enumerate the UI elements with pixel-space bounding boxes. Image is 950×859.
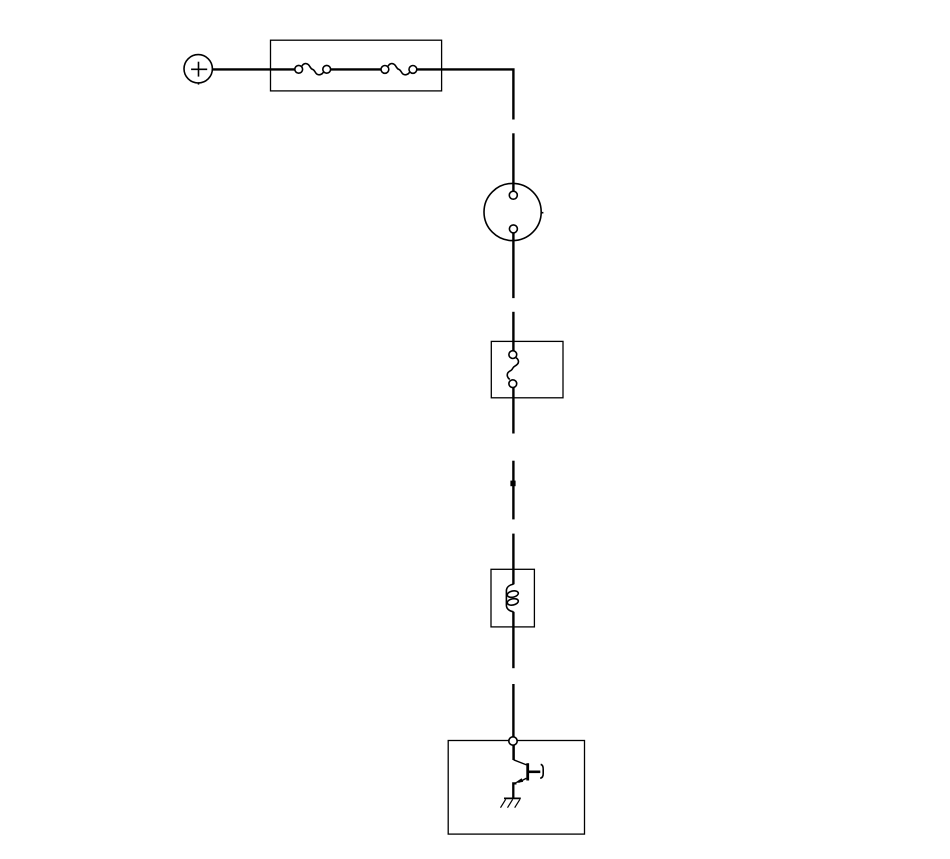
wire	[512, 312, 514, 351]
wire	[512, 612, 514, 668]
wire	[513, 783, 516, 798]
wire	[512, 133, 514, 191]
fuse box	[271, 40, 442, 91]
wire	[330, 68, 381, 70]
control unit box	[448, 741, 584, 835]
terminal pin	[509, 737, 517, 745]
coil box	[491, 569, 534, 627]
wire	[512, 388, 514, 434]
battery positive terminal	[184, 55, 212, 85]
node (splice)	[510, 481, 515, 487]
wire	[512, 233, 514, 298]
fuse F1	[295, 64, 331, 75]
wire	[512, 745, 515, 760]
fuse box B	[491, 341, 563, 397]
wire	[512, 461, 514, 520]
wire	[212, 68, 295, 70]
wire	[512, 534, 514, 585]
transistor Q1	[514, 760, 544, 784]
coil L1	[506, 584, 519, 612]
fuse F2	[381, 64, 417, 75]
ground	[501, 798, 521, 807]
wire	[416, 69, 514, 119]
connector C1	[484, 183, 543, 240]
wire	[512, 684, 514, 737]
fuse F3	[507, 351, 518, 388]
